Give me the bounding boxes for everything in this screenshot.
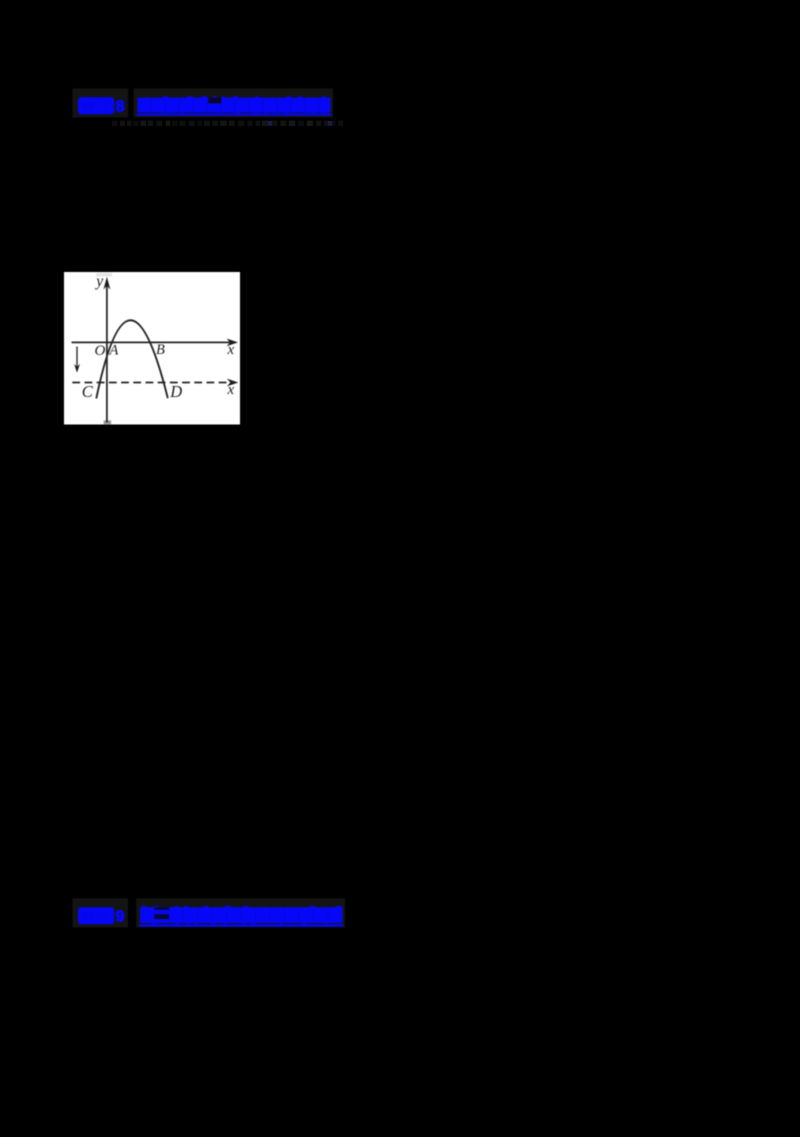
underline xyxy=(139,924,343,927)
badge 题型 xyxy=(78,907,114,924)
underline xyxy=(137,113,331,115)
parabola xyxy=(96,320,168,398)
faint ghost text row xyxy=(112,121,343,126)
y-axis xyxy=(106,286,108,423)
svg-text:C: C xyxy=(82,382,94,401)
svg-text:B: B xyxy=(156,342,165,358)
grey scan artifact top xyxy=(96,273,112,277)
title text band xyxy=(140,907,343,923)
header: 题型 9 xyxy=(73,898,346,927)
figure: parabola translated down xyxy=(64,272,240,425)
svg-text:A: A xyxy=(109,342,119,358)
svg-text:y: y xyxy=(94,273,103,290)
svg-text:x: x xyxy=(227,382,235,398)
header: 题型 8 xyxy=(73,88,334,117)
x-axis xyxy=(72,341,231,343)
translation down-arrow xyxy=(76,347,78,368)
grey scan artifact bottom xyxy=(104,420,112,424)
svg-text:x: x xyxy=(227,342,235,358)
dashed translated x-axis xyxy=(72,382,231,384)
svg-text:D: D xyxy=(169,382,182,401)
title text band xyxy=(138,98,331,113)
svg-text:9: 9 xyxy=(116,909,125,926)
svg-text:O: O xyxy=(95,343,106,359)
svg-text:8: 8 xyxy=(116,99,125,116)
badge 题型 xyxy=(78,97,114,114)
